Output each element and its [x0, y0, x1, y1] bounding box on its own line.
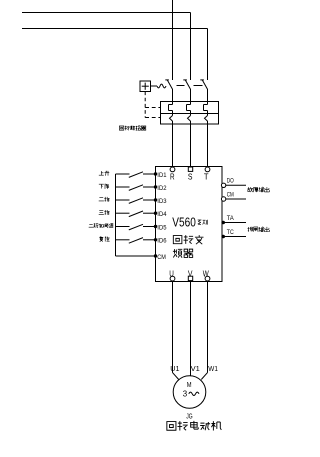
svg-text:ID4: ID4	[157, 211, 166, 218]
svg-text:R: R	[170, 172, 175, 182]
svg-text:V560: V560	[172, 215, 196, 229]
svg-text:ID2: ID2	[157, 185, 166, 192]
svg-text:V1: V1	[191, 364, 200, 373]
svg-text:JG: JG	[186, 411, 192, 420]
svg-text:ID6: ID6	[157, 238, 166, 245]
svg-text:T: T	[204, 172, 209, 182]
svg-text:TA: TA	[227, 215, 235, 222]
svg-text:U: U	[169, 269, 174, 279]
svg-text:TC: TC	[227, 229, 234, 236]
svg-text:U1: U1	[170, 364, 179, 373]
svg-text:W: W	[203, 269, 210, 279]
svg-text:CM: CM	[227, 191, 234, 198]
svg-text:3: 3	[183, 389, 187, 398]
svg-text:DO: DO	[227, 178, 234, 185]
svg-text:ID3: ID3	[157, 198, 166, 205]
svg-text:CM: CM	[157, 254, 166, 261]
svg-text:M: M	[187, 380, 192, 389]
svg-text:V: V	[188, 269, 193, 279]
svg-text:S: S	[188, 172, 193, 182]
svg-text:ID5: ID5	[157, 224, 166, 231]
svg-text:ID1: ID1	[157, 172, 166, 179]
svg-text:W1: W1	[208, 364, 218, 373]
